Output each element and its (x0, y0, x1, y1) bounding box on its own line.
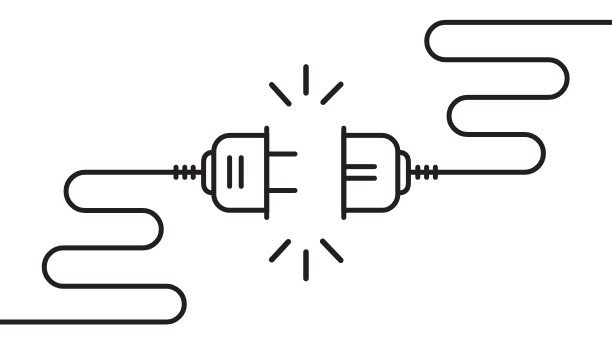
wire right serpentine (409, 22, 612, 172)
plug P1 strain relief (204, 152, 217, 193)
plug P1 prong bottom (267, 188, 295, 193)
plug P1 prong top (267, 152, 295, 157)
socket J1 body (344, 135, 398, 210)
spark top-middle (303, 67, 309, 93)
socket J1 strain relief (395, 152, 409, 193)
wire left serpentine (0, 172, 204, 322)
plug P1 face bar (264, 128, 269, 217)
spark top-left (272, 85, 289, 104)
plug P1 body (214, 135, 267, 210)
socket J1 face bar (341, 128, 346, 217)
spark bottom-right (323, 241, 341, 260)
plug P1 cord ribs (176, 167, 193, 177)
spark bottom-middle (303, 252, 309, 279)
socket J1 cord ribs (418, 167, 436, 177)
spark bottom-left (272, 242, 289, 260)
spark top-right (323, 84, 341, 102)
socket J1 slot bottom (344, 176, 375, 181)
socket J1 slot top (344, 164, 375, 169)
plug P1 vent lines (230, 158, 242, 187)
